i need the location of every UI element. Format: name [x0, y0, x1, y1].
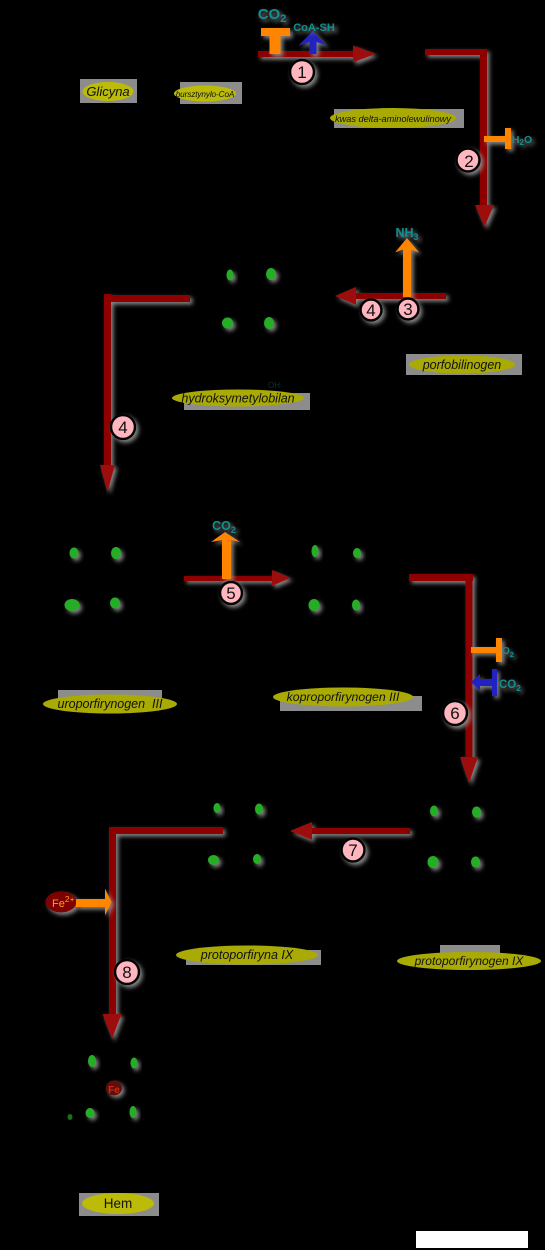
node circle 6 — [443, 701, 467, 725]
node circle 1 — [290, 60, 314, 84]
wire: step-4 L-shaped arrow down-left — [100, 294, 190, 492]
svg-text:5: 5 — [226, 584, 235, 603]
molecule protoporphyrinogen IX: green atom labels — [428, 806, 482, 869]
label porfobilinogen — [406, 354, 522, 375]
arrow: NH3 released at steps 3/4 — [395, 238, 419, 297]
wire: step-2 L-shaped arrow down to ALA — [425, 49, 494, 227]
white watermark bar bottom right — [416, 1231, 528, 1248]
molecule hydroxymethylbilane: green NH atom labels — [222, 268, 276, 329]
svg-text:kwas delta-aminolewulinowy: kwas delta-aminolewulinowy — [335, 114, 452, 124]
arrow: H2O released at step 2 — [484, 128, 511, 149]
svg-text:3: 3 — [403, 300, 412, 319]
svg-text:4: 4 — [366, 301, 375, 320]
wire: step-5 arrow (uro to copro, rightwards) — [184, 570, 291, 586]
label koproporfirynogen III — [273, 688, 422, 712]
arrow: O2 at step 6 — [471, 638, 502, 662]
arrow: Fe2+ into step-8 arrow — [76, 889, 112, 916]
label Glicyna — [80, 79, 137, 103]
svg-text:protoporfirynogen IX: protoporfirynogen IX — [414, 954, 525, 968]
svg-text:Fe: Fe — [108, 1085, 120, 1096]
label kwas delta-aminolewulinowy — [330, 108, 464, 128]
node circle 3 — [398, 299, 419, 320]
node circle 5 — [220, 582, 242, 604]
svg-text:hydroksymetylobilan: hydroksymetylobilan — [181, 392, 294, 406]
svg-text:2: 2 — [464, 152, 473, 171]
svg-text:koproporfirynogen III: koproporfirynogen III — [287, 690, 400, 704]
svg-text:1: 1 — [297, 63, 306, 82]
svg-text:CoA-SH: CoA-SH — [293, 22, 335, 34]
wire: step-7 arrow (leftwards) — [290, 822, 410, 840]
label bursztynylo-CoA — [174, 82, 242, 104]
label hydroksymetylobilan — [172, 390, 310, 411]
svg-text:Glicyna: Glicyna — [86, 84, 129, 99]
molecule coproporphyrinogen III: green atom labels — [309, 545, 362, 611]
wire: step-3 arrow (ALA to porphobilinogen, leftwards) — [335, 287, 446, 305]
label Hem — [79, 1193, 159, 1216]
node circle 4 (left of circle 3) — [361, 300, 382, 321]
node circle 4 (on step-4 arrow) — [111, 415, 135, 439]
svg-text:porfobilinogen: porfobilinogen — [422, 358, 502, 372]
arrow: CO2 at step 6 (blue, pointing into arrow) — [471, 669, 497, 696]
node circle 2 — [457, 149, 480, 172]
molecule protoporphyrin IX: green atom labels — [208, 803, 263, 865]
label uroporfirynogen III — [43, 690, 177, 714]
node Fe2+ — [46, 892, 77, 913]
wire: step-8 L-shaped arrow down — [103, 827, 224, 1039]
svg-text:uroporfirynogen III: uroporfirynogen III — [58, 697, 163, 711]
svg-text:8: 8 — [122, 963, 131, 982]
node circle 8 — [115, 960, 139, 984]
svg-text:protoporfiryna IX: protoporfiryna IX — [200, 948, 294, 962]
molecule uroporphyrinogen III: green atom labels — [65, 547, 122, 611]
wire: step-1 reaction arrow (glycine + succinyl-CoA) — [258, 46, 376, 63]
svg-text:6: 6 — [450, 704, 459, 723]
label protoporfiryna IX — [176, 946, 321, 966]
label protoporfirynogen IX — [397, 945, 541, 970]
svg-text:OH: OH — [268, 381, 280, 390]
node circle 7 — [342, 839, 365, 862]
svg-text:4: 4 — [118, 418, 127, 437]
molecule heme: green atom labels and Fe — [86, 1055, 138, 1118]
arrow: CO2 released at step 1 — [261, 28, 290, 54]
svg-text:7: 7 — [348, 841, 357, 860]
svg-text:bursztynylo-CoA: bursztynylo-CoA — [176, 90, 235, 99]
arrow: CoA-SH released at step 1 — [299, 31, 327, 54]
wire: step-6 L-shaped arrow down — [409, 574, 478, 783]
label Fe in heme — [106, 1081, 122, 1096]
arrow: CO2 released at step 5 — [211, 532, 240, 579]
svg-text:Hem: Hem — [104, 1196, 133, 1211]
